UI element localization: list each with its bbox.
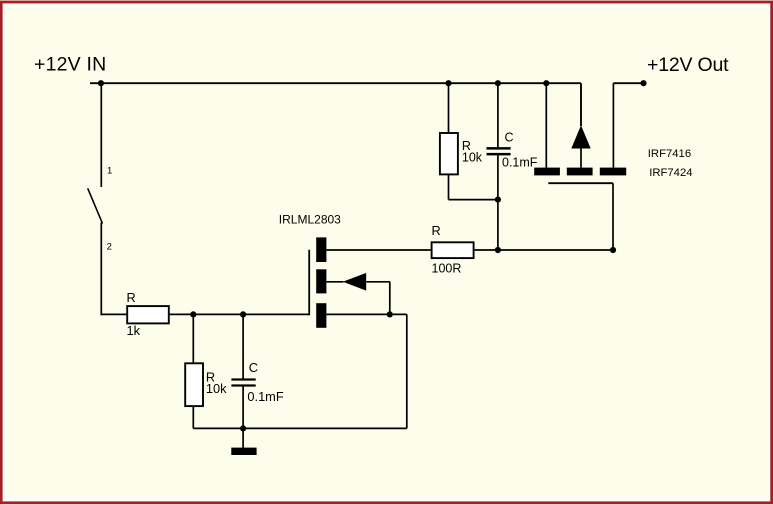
wire Q1 drain to R100R xyxy=(326,249,430,251)
transistor Q2 bulk arrow xyxy=(571,125,590,167)
svg-text:2: 2 xyxy=(107,241,112,252)
switch S1 pin 2 label xyxy=(107,241,112,252)
node junction on rail above R 10k xyxy=(445,80,451,86)
node +12V Out label xyxy=(647,54,729,76)
svg-text:C: C xyxy=(249,360,258,375)
transistor Q2 label IRF7424 xyxy=(649,167,692,179)
svg-text:R: R xyxy=(127,290,136,305)
svg-text:IRF7424: IRF7424 xyxy=(649,167,692,179)
wire switch pin 2 down xyxy=(101,223,127,316)
transistor Q2 gate line xyxy=(548,183,613,250)
svg-text:R: R xyxy=(432,223,441,238)
svg-text:+12V IN: +12V IN xyxy=(34,54,106,76)
transistor Q2 drain bar xyxy=(600,168,626,176)
svg-text:1: 1 xyxy=(107,166,112,177)
capacitor C 0.1mF upper xyxy=(487,131,538,170)
node +12V IN label xyxy=(34,54,106,76)
transistor Q1 drain bar xyxy=(316,237,326,262)
node junction R100R/Q2 gate xyxy=(610,247,616,253)
wire R10k bottom to junction row xyxy=(449,174,498,200)
transistor Q1 source bar xyxy=(316,303,326,328)
svg-text:10k: 10k xyxy=(206,381,227,396)
node junction R100R/C-R10k xyxy=(495,247,501,253)
wire arrow to source junction xyxy=(366,282,390,315)
resistor R 100R xyxy=(432,223,474,276)
node +12V Out terminal dot xyxy=(640,80,646,86)
switch S1 pin 1 label xyxy=(107,166,112,177)
resistor R 10k upper xyxy=(440,133,483,174)
wire main +12V rail xyxy=(90,82,581,84)
resistor R 10k lower xyxy=(185,363,227,406)
wire +12V Out segment xyxy=(613,82,643,84)
transistor Q2 source bar xyxy=(534,168,560,176)
switch S1 blade xyxy=(88,188,103,223)
wire rail down to C top xyxy=(497,83,499,148)
node junction gate/C xyxy=(240,311,246,317)
wire Q2 drain up to +12V Out xyxy=(612,83,614,167)
wire R10k lower to bottom rail xyxy=(192,407,194,428)
svg-text:+12V Out: +12V Out xyxy=(647,54,729,76)
svg-text:IRF7416: IRF7416 xyxy=(648,148,691,160)
wire R100R to gate corner xyxy=(475,249,613,251)
transistor Q1 IRLML2803 label xyxy=(279,213,341,227)
ground xyxy=(231,428,256,455)
svg-text:100R: 100R xyxy=(432,262,462,276)
wire gate node down to C lower xyxy=(242,314,244,378)
wire bottom rail xyxy=(193,427,406,429)
svg-text:IRLML2803: IRLML2803 xyxy=(279,213,341,227)
transistor Q2 body bar xyxy=(567,168,593,176)
svg-text:0.1mF: 0.1mF xyxy=(502,156,538,170)
svg-text:10k: 10k xyxy=(462,151,483,165)
wire C bottom to junction xyxy=(497,155,499,250)
wire Q1 body to arrow xyxy=(326,281,343,283)
node junction source/arrow xyxy=(387,311,393,317)
node junction gate/R10k xyxy=(190,311,196,317)
wire rail down to switch pin 1 xyxy=(100,83,102,187)
svg-text:C: C xyxy=(505,131,514,145)
transistor Q2 label IRF7416 xyxy=(648,148,691,160)
wire R1k to gate node xyxy=(169,313,310,315)
svg-text:1k: 1k xyxy=(127,323,141,338)
transistor Q1 gate line xyxy=(308,250,310,316)
node junction on rail above switch xyxy=(98,80,104,86)
wire rail to diode arrow drop xyxy=(580,83,582,126)
transistor Q1 bulk arrow xyxy=(343,273,366,291)
node junction ground xyxy=(240,425,246,431)
resistor R 1k xyxy=(127,290,169,338)
wire Q1 source to down corner xyxy=(326,314,406,428)
svg-text:0.1mF: 0.1mF xyxy=(247,389,283,404)
transistor Q1 body bar xyxy=(316,269,326,293)
node junction on rail above C 0.1mF xyxy=(495,80,501,86)
wire rail down to Q2 left bar xyxy=(545,83,547,167)
capacitor C 0.1mF lower xyxy=(231,360,283,404)
wire C lower to bottom rail xyxy=(242,386,244,428)
wire gate node down to R10k lower xyxy=(192,314,194,362)
node junction R10k/C bottom xyxy=(495,197,501,203)
node junction on rail above Q2 source bar xyxy=(543,80,549,86)
wire rail down to R10k top xyxy=(448,83,450,133)
